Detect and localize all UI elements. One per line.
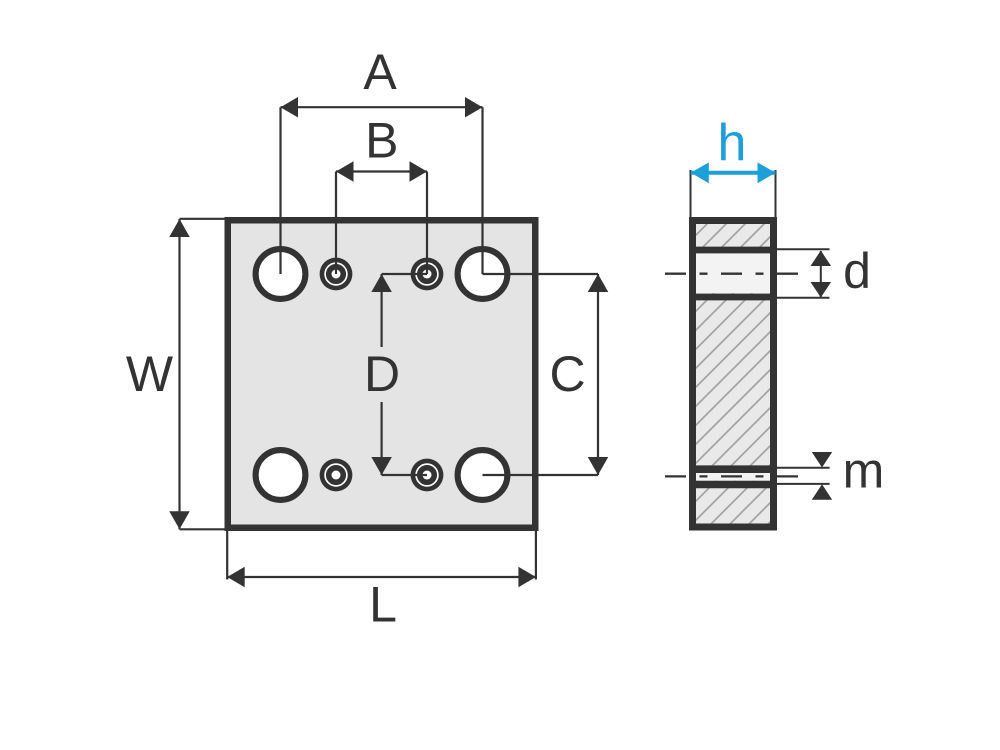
svg-text:m: m [843,443,885,499]
svg-text:d: d [843,243,871,299]
svg-text:B: B [365,113,398,169]
svg-text:C: C [549,346,585,402]
svg-text:L: L [369,577,397,633]
svg-text:h: h [718,114,747,172]
svg-text:A: A [363,44,397,100]
svg-text:W: W [126,346,174,402]
svg-text:D: D [364,346,400,402]
